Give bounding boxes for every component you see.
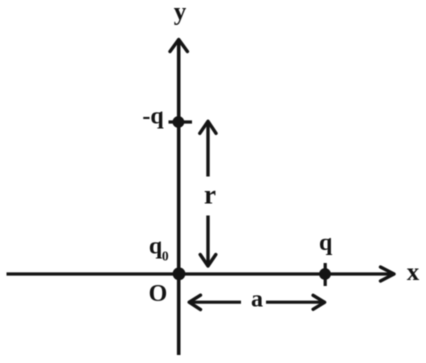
svg-text:O: O bbox=[149, 281, 168, 307]
svg-text:r: r bbox=[204, 180, 216, 210]
svg-text:a: a bbox=[251, 287, 263, 313]
svg-text:y: y bbox=[174, 0, 187, 26]
svg-text:q: q bbox=[319, 230, 333, 256]
svg-text:q: q bbox=[149, 234, 163, 260]
svg-text:x: x bbox=[407, 259, 420, 286]
svg-text:-q: -q bbox=[142, 104, 164, 130]
svg-text:0: 0 bbox=[162, 249, 169, 264]
